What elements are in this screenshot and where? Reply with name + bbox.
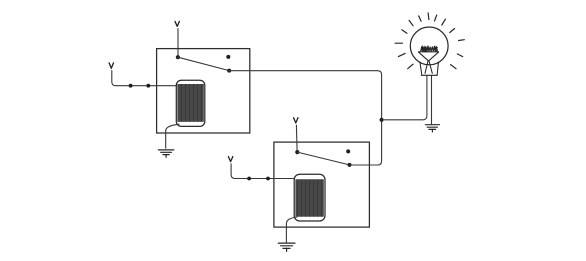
wire S1 output to node A bbox=[229, 71, 381, 120]
wire coil L1 to ground bbox=[166, 124, 179, 148]
relay coil L2 bbox=[294, 174, 325, 221]
switch S1 moving contact tip bbox=[227, 69, 231, 73]
lamp DS1 filament coil bbox=[421, 46, 438, 52]
node V1 label (top supply of K1) bbox=[175, 21, 179, 26]
ground G2 bbox=[278, 243, 295, 251]
lamp DS1 filament support funnel bbox=[418, 52, 439, 74]
lamp DS1 envelope bbox=[410, 27, 448, 65]
switch S2 common pivot bbox=[295, 150, 299, 154]
wire V1 to switch S1 pivot bbox=[177, 29, 179, 57]
wire node A to lamp (left lead) bbox=[382, 75, 427, 119]
switch S1 arm bbox=[178, 57, 229, 70]
lamp right lead to ground bbox=[431, 75, 433, 124]
junction dot B1 on V4 wire bbox=[247, 177, 251, 181]
switch S2 arm bbox=[297, 152, 349, 165]
node V2 label (left supply of K1) bbox=[109, 63, 113, 68]
switch S1 open contact bbox=[226, 55, 230, 59]
ground G3 bbox=[425, 125, 439, 132]
lamp DS1 light rays bbox=[395, 13, 464, 69]
lamp DS1 neck bbox=[420, 62, 439, 75]
junction dot B2 on V4 wire bbox=[266, 177, 270, 181]
relay coil L1 bbox=[176, 80, 205, 126]
relay K2 enclosure bbox=[274, 142, 370, 227]
junction dot A2 on V2 wire bbox=[146, 84, 150, 88]
switch S1 common pivot bbox=[176, 55, 180, 59]
ground G1 bbox=[158, 150, 173, 157]
switch S2 moving contact tip bbox=[348, 163, 352, 167]
relay K1 enclosure bbox=[157, 49, 250, 133]
wire S2 output to node A bbox=[350, 122, 382, 165]
node V3 label (top supply of K2) bbox=[294, 118, 298, 123]
node A junction bbox=[380, 118, 384, 122]
wire V2 to coil L1 bbox=[112, 71, 177, 86]
junction dot A1 on V2 wire bbox=[129, 84, 133, 88]
wire V4 to coil L2 bbox=[231, 164, 294, 179]
wire V3 to switch S2 pivot bbox=[295, 125, 298, 151]
switch S2 open contact bbox=[346, 149, 350, 153]
node V4 label (left supply of K2) bbox=[228, 157, 232, 162]
wire coil L2 to ground bbox=[286, 217, 297, 242]
